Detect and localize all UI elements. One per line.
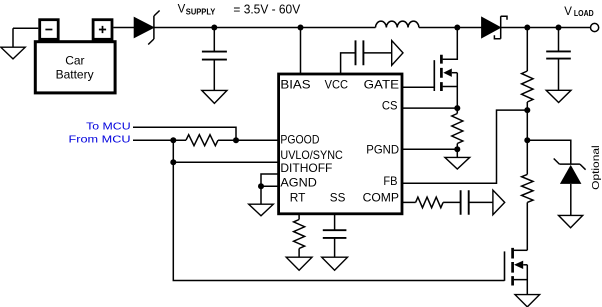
wire PGND: [401, 148, 457, 150]
svg-text:From MCU: From MCU: [69, 133, 131, 145]
capacitor Cout: [546, 28, 571, 91]
svg-text:VCC: VCC: [325, 78, 349, 92]
node From MCU: [170, 137, 176, 143]
wire BIAS: [300, 28, 302, 75]
svg-text:FB: FB: [383, 174, 397, 188]
node switch: [454, 25, 460, 31]
wire switch node: [419, 27, 482, 29]
resistor Rcomp: [401, 197, 443, 208]
diode D2 schottky: [482, 16, 507, 39]
label VLOAD: [564, 6, 594, 18]
node input cap: [211, 25, 217, 31]
svg-text:CS: CS: [382, 98, 398, 112]
wire CS: [401, 107, 457, 109]
wire From MCU: [133, 139, 186, 141]
node BIAS: [298, 25, 304, 31]
svg-text:DITHOFF: DITHOFF: [280, 161, 332, 175]
wire UVLO/SYNC: [173, 161, 278, 163]
resistor Rcs: [452, 108, 463, 149]
terminal VLOAD: [591, 23, 599, 31]
wire AGND: [261, 186, 278, 204]
capacitor Ccomp: [443, 190, 493, 215]
svg-text:Battery: Battery: [56, 68, 94, 82]
svg-text:RT: RT: [290, 191, 306, 205]
wire battery to D1: [113, 27, 134, 29]
ground AGND: [249, 204, 274, 216]
svg-text:SUPPLY: SUPPLY: [186, 7, 216, 17]
svg-text:AGND: AGND: [280, 176, 317, 190]
resistor Rfb2: [522, 140, 533, 250]
node zener tap: [524, 137, 530, 143]
ground zener: [559, 215, 583, 227]
svg-text:Optional: Optional: [590, 145, 602, 190]
wire To MCU: [133, 127, 236, 140]
ground battery: [1, 28, 39, 59]
ground Q2: [515, 295, 540, 307]
wire DITHOFF: [261, 174, 278, 186]
svg-text:= 3.5V - 60V: = 3.5V - 60V: [233, 2, 300, 17]
ground SS: [322, 257, 348, 270]
ground RT: [286, 257, 312, 270]
node AGND: [258, 183, 264, 189]
ground COMP: [493, 190, 505, 215]
resistor R1 PGOOD: [186, 135, 218, 146]
svg-text:BIAS: BIAS: [280, 78, 310, 92]
resistor Rfb1: [522, 28, 533, 111]
wire GATE: [401, 60, 434, 87]
ground output cap: [546, 90, 571, 102]
svg-text:SS: SS: [330, 191, 346, 205]
node CS: [454, 105, 460, 111]
resistor RT: [294, 214, 305, 257]
node PGOOD: [233, 137, 239, 143]
svg-text:UVLO/SYNC: UVLO/SYNC: [280, 148, 343, 162]
svg-text:V: V: [178, 4, 186, 16]
car battery BT1: [35, 20, 115, 93]
inductor L1: [376, 21, 419, 27]
wire FB: [401, 110, 524, 183]
node FB tap: [524, 107, 530, 113]
zener D3 optional: [554, 159, 586, 216]
wire to VLOAD: [501, 27, 591, 29]
svg-text:LOAD: LOAD: [574, 9, 594, 18]
diode D1 reverse protection: [134, 11, 159, 45]
svg-text:COMP: COMP: [363, 191, 399, 205]
wire PGOOD: [218, 139, 278, 141]
wire VSUPPLY rail: [154, 27, 376, 29]
wire zener: [527, 140, 571, 164]
label VSUPPLY: [178, 2, 301, 17]
wire divider mid: [526, 110, 528, 140]
wire MCU to gate M2: [173, 140, 504, 280]
svg-text:GATE: GATE: [364, 78, 399, 92]
ground PGND: [445, 149, 470, 169]
node UVLO: [170, 159, 176, 165]
node output divider: [524, 25, 530, 31]
op-amp U1 controller: [279, 74, 402, 214]
svg-text:PGND: PGND: [366, 143, 399, 157]
transistor Q1: [434, 28, 457, 113]
node output cap: [556, 25, 562, 31]
svg-text:PGOOD: PGOOD: [280, 132, 319, 146]
ground input cap: [202, 90, 227, 103]
capacitor VCC: [341, 40, 392, 74]
capacitor SS: [323, 214, 347, 257]
svg-text:To MCU: To MCU: [86, 121, 130, 133]
ground VCC cap: [392, 41, 403, 66]
node PGND: [454, 146, 460, 152]
svg-text:Car: Car: [65, 54, 84, 68]
svg-text:V: V: [564, 6, 572, 18]
capacitor C1 input: [202, 28, 227, 91]
transistor Q2: [505, 248, 528, 295]
